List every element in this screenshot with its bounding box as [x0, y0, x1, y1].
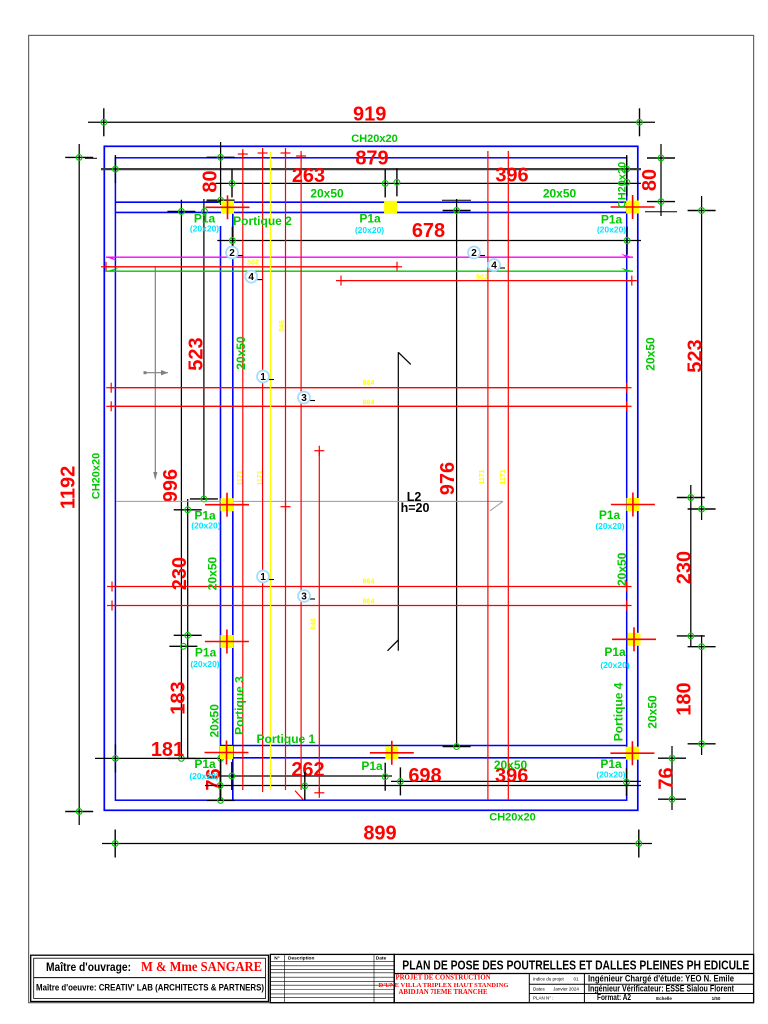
svg-text:502: 502 — [476, 275, 488, 282]
svg-text:864: 864 — [363, 400, 375, 407]
dim 899 right tick — [636, 830, 642, 858]
dimension 919 line — [88, 121, 655, 123]
red joist line y605 — [107, 601, 632, 611]
svg-text:Date: Date — [376, 956, 387, 962]
tick x456 bottom — [443, 744, 471, 750]
dim 230 right bottom tick — [677, 633, 705, 639]
svg-text:396: 396 — [495, 165, 528, 187]
svg-text:919: 919 — [353, 104, 386, 126]
svg-text:3: 3 — [301, 393, 307, 404]
svg-text:230: 230 — [169, 557, 191, 590]
black vertical extension x456 — [456, 199, 458, 747]
svg-text:879: 879 — [355, 147, 388, 169]
svg-text:230: 230 — [674, 551, 696, 584]
svg-text:864: 864 — [363, 579, 375, 586]
dim 76 left bottom tick — [207, 798, 235, 804]
gray leader arrow — [144, 370, 169, 375]
svg-text:864: 864 — [363, 599, 375, 606]
svg-text:20x50: 20x50 — [206, 556, 220, 590]
section line L2 — [388, 352, 411, 651]
svg-text:Dates: Dates — [533, 986, 546, 991]
dim 230 left top tick — [174, 507, 202, 513]
svg-text:20x50: 20x50 — [643, 337, 657, 371]
svg-text:Indice du projet: Indice du projet — [533, 977, 565, 982]
dimension 879 line (thick gray) — [101, 168, 641, 170]
dimension 262 line — [220, 775, 392, 777]
green axis — [106, 268, 633, 272]
circled number 2 b — [468, 247, 485, 260]
svg-text:1: 1 — [260, 572, 266, 583]
dim 80 right bottom tick — [647, 199, 675, 205]
svg-text:h=20: h=20 — [401, 501, 430, 515]
circled number 1 b — [257, 571, 274, 584]
svg-text:1171: 1171 — [237, 470, 244, 485]
title block left box outer — [31, 955, 269, 1001]
svg-text:(20x20): (20x20) — [355, 225, 384, 235]
circled number 3 b — [298, 590, 315, 603]
svg-text:Ingénieur Vérificateur: ESSE S: Ingénieur Vérificateur: ESSE Sialou Flor… — [588, 984, 734, 994]
svg-text:1171: 1171 — [257, 470, 264, 485]
svg-text:1171: 1171 — [500, 469, 507, 484]
column P1a row4 left — [205, 741, 249, 765]
svg-text:Portique 2: Portique 2 — [233, 214, 292, 228]
svg-text:(20x20): (20x20) — [596, 770, 625, 780]
svg-text:(20x20): (20x20) — [600, 660, 629, 670]
gray construction vertical — [153, 266, 157, 480]
column P1a row1 left — [206, 195, 250, 219]
tick on second bottom line — [302, 772, 308, 800]
column P1a row1 right — [611, 195, 655, 219]
dim 76 right bottom tick — [658, 796, 686, 802]
dimension 879 left tick — [113, 155, 119, 183]
beam Portique 3 left line — [220, 226, 222, 800]
red vertical x242 — [238, 149, 248, 790]
left box divider — [34, 977, 266, 979]
svg-text:502: 502 — [247, 260, 259, 267]
svg-text:4: 4 — [248, 272, 254, 283]
red vertical x488 — [487, 151, 489, 800]
tick 396 right — [624, 168, 630, 196]
dimension 181 line — [95, 757, 221, 759]
svg-text:Maître d'ouvrage:: Maître d'ouvrage: — [46, 960, 131, 974]
svg-text:846: 846 — [311, 618, 318, 630]
dim 183 top tick — [169, 643, 197, 649]
column P1a row2 right — [611, 493, 655, 517]
plan title divider — [394, 973, 753, 975]
svg-text:CH20x20: CH20x20 — [90, 453, 102, 499]
red joist line y586 — [107, 582, 632, 592]
title block right box — [394, 954, 753, 1002]
left margin dash — [85, 157, 97, 159]
dim 80 left top tick — [207, 154, 235, 160]
svg-text:864: 864 — [363, 380, 375, 387]
svg-text:80: 80 — [639, 169, 661, 191]
dim 698 far-left tick — [217, 772, 223, 800]
red axis upper-right — [336, 276, 637, 286]
svg-text:(20x20): (20x20) — [189, 771, 218, 781]
beam Portique 3 right line — [232, 202, 234, 800]
red vertical x285 — [281, 148, 291, 790]
svg-text:1: 1 — [260, 372, 266, 383]
column P1a row4 right — [610, 741, 654, 765]
svg-text:183: 183 — [168, 681, 190, 714]
svg-text:Maître d'oeuvre: CREATIV' LAB: Maître d'oeuvre: CREATIV' LAB (ARCHITECT… — [36, 983, 264, 994]
dimension 230 right line — [690, 485, 692, 647]
magenta axis — [106, 254, 633, 261]
dimension 698/396 line — [391, 780, 641, 782]
dim 698 left tick — [398, 767, 404, 795]
svg-text:Description: Description — [288, 956, 314, 962]
dimension 678 line — [217, 240, 641, 242]
cross x456 top2 — [442, 199, 471, 201]
dim 180 right bottom tick — [688, 741, 716, 747]
svg-text:PLAN DE POSE DES POUTRELLES ET: PLAN DE POSE DES POUTRELLES ET DALLES PL… — [402, 957, 749, 972]
second bottom dim line (698) — [205, 785, 641, 787]
right rows divider 1 — [529, 983, 753, 985]
dim 80 left bottom tick — [207, 197, 235, 203]
svg-text:263: 263 — [292, 165, 325, 187]
dimension 523 right line — [701, 196, 703, 520]
dim 180 right top tick — [688, 644, 716, 650]
revision table grid — [270, 954, 394, 1002]
dim 80 right top tick — [647, 155, 675, 161]
svg-text:(20x20): (20x20) — [190, 659, 219, 669]
project box divider v1 — [528, 974, 530, 1003]
svg-text:20x50: 20x50 — [494, 758, 528, 772]
slab inner edge (blue) — [115, 158, 626, 800]
svg-text:Portique 4: Portique 4 — [611, 682, 625, 741]
beam Portique 1 top line — [221, 745, 627, 747]
svg-text:Format: A2: Format: A2 — [597, 993, 631, 1002]
svg-text:4: 4 — [491, 261, 497, 272]
dim 523 left top tick — [202, 202, 221, 215]
right rows divider 2 — [529, 993, 753, 995]
svg-text:(20x20): (20x20) — [597, 225, 626, 235]
dimension 1192 top tick — [65, 155, 93, 161]
dim 698/396 right tick — [624, 768, 630, 796]
beam Portique 2 top line — [115, 201, 626, 203]
beam Portique 2 bottom line — [115, 211, 626, 213]
tick x456 top — [443, 208, 471, 214]
red vertical x262 — [258, 148, 268, 792]
dimension 76 right line — [671, 746, 673, 810]
svg-text:P1a: P1a — [194, 757, 216, 771]
tick 263 left — [229, 169, 235, 197]
red vertical x319 — [314, 446, 324, 798]
dim 76 right top tick — [658, 755, 686, 761]
svg-text:20x50: 20x50 — [234, 336, 248, 370]
dim 523 right top tick — [688, 208, 716, 214]
dimension 899 line — [102, 843, 652, 845]
column P1a row3 right — [612, 627, 656, 651]
svg-text:20x50: 20x50 — [615, 552, 629, 586]
column P1a row2 left — [205, 493, 249, 517]
circled number 2 a — [226, 247, 243, 260]
svg-text:899: 899 — [363, 823, 396, 845]
svg-text:698: 698 — [408, 765, 441, 787]
svg-text:1/50: 1/50 — [712, 996, 721, 1001]
dim 230 left bottom tick — [174, 632, 202, 638]
yellow vertical line — [270, 152, 272, 790]
svg-text:20x50: 20x50 — [645, 695, 659, 729]
circled number 1 a — [257, 371, 274, 384]
svg-text:Portique 3: Portique 3 — [233, 676, 247, 735]
svg-text:(20x20): (20x20) — [190, 224, 219, 234]
svg-text:CH20x20: CH20x20 — [616, 162, 628, 208]
svg-text:(20x20): (20x20) — [191, 521, 220, 531]
dim 996 top tick — [167, 209, 195, 215]
svg-text:P1a: P1a — [359, 212, 381, 226]
svg-text:181: 181 — [151, 739, 184, 761]
dimension 76 left line — [220, 752, 222, 800]
svg-text:2: 2 — [471, 248, 477, 259]
svg-text:1171: 1171 — [479, 469, 486, 484]
dim 76 left top tick circle — [218, 755, 224, 761]
svg-text:20x50: 20x50 — [208, 704, 222, 738]
svg-text:M & Mme SANGARE: M & Mme SANGARE — [141, 959, 262, 974]
column row1 middle — [384, 201, 397, 214]
circled number 3 a — [298, 392, 315, 405]
svg-text:P1a: P1a — [195, 646, 217, 660]
tick 396 left — [394, 168, 400, 196]
svg-text:76: 76 — [656, 767, 678, 789]
dimension 80 left line — [220, 142, 222, 205]
red vertical x301 — [295, 151, 306, 800]
svg-text:20x50: 20x50 — [310, 187, 344, 201]
svg-text:523: 523 — [684, 339, 706, 372]
svg-text:80: 80 — [199, 170, 221, 192]
svg-text:678: 678 — [412, 220, 445, 242]
circled number 4 a — [245, 271, 262, 284]
dimension 919 left tick — [101, 108, 107, 136]
svg-text:CH20x20: CH20x20 — [351, 133, 397, 145]
red joist line y406 — [106, 401, 631, 411]
tick 678 right — [624, 227, 630, 255]
dim 230 right top tick — [677, 495, 705, 501]
svg-text:Portique 1: Portique 1 — [257, 732, 316, 746]
dim 262 right tick — [382, 763, 388, 791]
svg-text:ABIDJAN 7IEME TRANCHE: ABIDJAN 7IEME TRANCHE — [399, 989, 488, 996]
revision table box — [270, 954, 394, 1002]
svg-text:996: 996 — [160, 469, 182, 502]
right edge tick arm — [645, 211, 677, 213]
red axis upper-left — [101, 262, 402, 272]
red vertical x508 — [507, 151, 509, 800]
svg-text:N°: N° — [274, 956, 279, 962]
dimension 80 right line — [660, 144, 662, 216]
slab label leader line — [116, 501, 503, 510]
dimension 879 right tick — [624, 155, 630, 183]
dim 262 left tick — [229, 762, 235, 790]
dimension 919 right tick — [637, 108, 643, 136]
svg-text:3: 3 — [301, 592, 307, 603]
svg-text:180: 180 — [674, 682, 696, 715]
svg-text:1192: 1192 — [57, 466, 79, 509]
dimension 1192 line — [78, 144, 80, 825]
svg-text:Ingénieur Chargé d'étude: YEO: Ingénieur Chargé d'étude: YEO N. Emile — [588, 974, 734, 984]
dimension 263/396 line — [216, 182, 641, 184]
svg-text:846: 846 — [279, 320, 286, 332]
tick 263 right — [382, 169, 388, 197]
dimension 180 right line — [701, 635, 703, 755]
dimension 523 left line — [203, 199, 205, 500]
svg-text:2: 2 — [229, 248, 235, 259]
svg-text:D'UNE VILLA TRIPLEX HAUT STAND: D'UNE VILLA TRIPLEX HAUT STANDING — [379, 982, 509, 989]
dim 899 left tick — [112, 830, 118, 858]
svg-text:CH20x20: CH20x20 — [489, 812, 535, 824]
svg-text:20x50: 20x50 — [543, 187, 577, 201]
svg-text:976: 976 — [437, 462, 459, 495]
svg-text:P1a: P1a — [361, 759, 383, 773]
svg-text:523: 523 — [186, 337, 208, 370]
circled number 4 b — [488, 259, 505, 272]
red joist line y388 — [106, 383, 631, 393]
svg-text:P1a: P1a — [604, 645, 626, 659]
dim 523 left bottom tick — [190, 496, 218, 502]
svg-text:01: 01 — [573, 977, 579, 982]
dim 183 bottom tick — [167, 756, 195, 762]
column P1a row3 left — [205, 630, 249, 654]
column row4 middle — [370, 741, 414, 765]
slab outer edge (blue) — [104, 146, 638, 810]
project box divider v2 — [583, 974, 585, 1003]
svg-text:PLAN N° :: PLAN N° : — [533, 996, 554, 1001]
svg-text:Janvier 2024: Janvier 2024 — [553, 986, 579, 991]
dimension 996 line — [180, 200, 182, 759]
dimension 230 left line — [187, 499, 189, 758]
dimension 1192 bottom tick — [65, 809, 93, 815]
svg-text:PROJET DE CONSTRUCTION: PROJET DE CONSTRUCTION — [395, 975, 490, 982]
svg-text:Echelle: Echelle — [656, 996, 672, 1001]
tick 678 left — [230, 227, 236, 255]
svg-text:(20x20): (20x20) — [595, 521, 624, 531]
dim 523 right bottom tick — [688, 506, 716, 512]
title block left box inner — [34, 958, 266, 998]
dim 181 left tick — [113, 744, 119, 772]
beam Portique 1 bottom line — [221, 757, 627, 759]
